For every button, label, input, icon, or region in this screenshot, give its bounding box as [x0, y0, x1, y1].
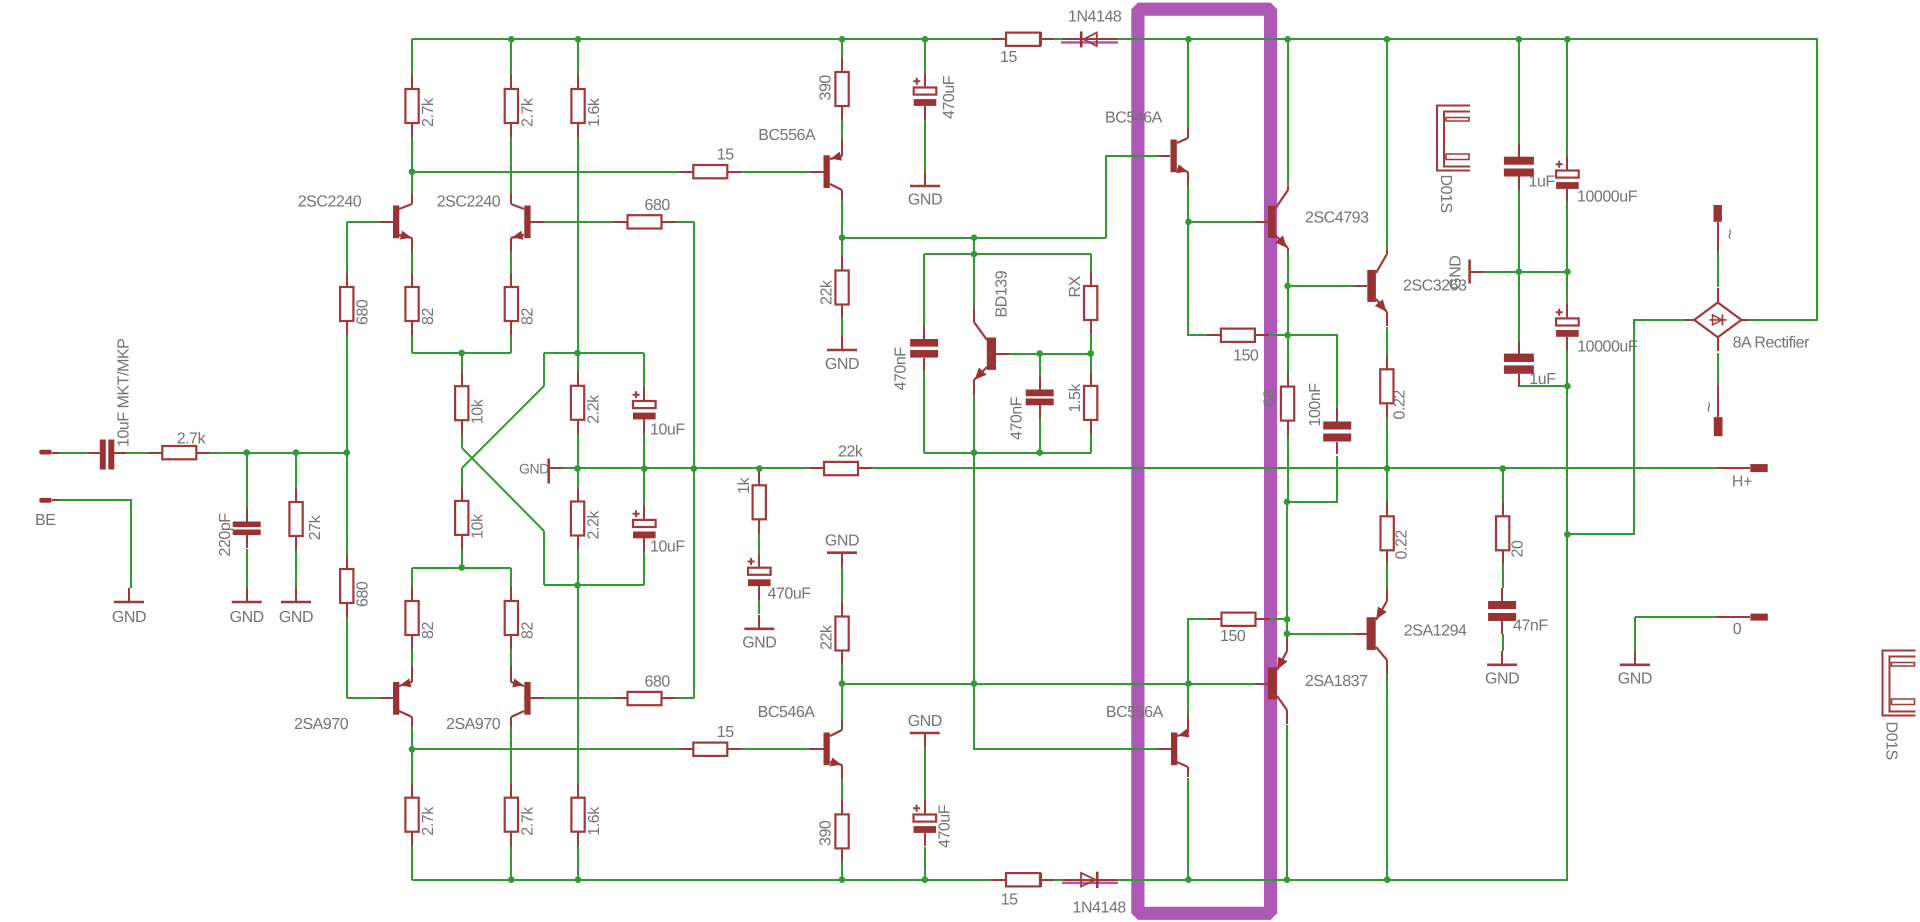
svg-text:RX: RX: [1067, 275, 1084, 297]
highlight underline bottom rail: [1062, 882, 1118, 885]
svg-text:22k: 22k: [819, 624, 836, 650]
wire BD139 emitter down: [973, 393, 975, 684]
ground 22k#4 GND: [827, 553, 857, 567]
resistor 680 #3: [614, 215, 676, 228]
capacitor 1uF #2: [1504, 341, 1534, 387]
ground 220pF GND: [232, 588, 262, 602]
junction V+ 2.7k#2: [508, 36, 515, 43]
svg-text:22k: 22k: [819, 279, 836, 305]
wire 22k#4 to GND: [841, 567, 843, 602]
wire 15#1 to BC556A base: [741, 171, 810, 173]
resistor 15 #2: [679, 743, 741, 756]
wire 2.7k#1 to Q1 collector: [411, 137, 413, 172]
ground BE GND: [114, 588, 144, 602]
svg-text:82: 82: [420, 622, 437, 639]
wire 2SC3263 base row: [1288, 285, 1354, 287]
junction 683 1188: [1185, 680, 1192, 687]
transistor BC546A #1: [1158, 128, 1188, 186]
wire 2.7k#4 to V- rail: [510, 846, 512, 880]
wire 220pF top: [246, 453, 248, 508]
svg-text:1uF: 1uF: [1529, 174, 1556, 191]
junction BD base RX: [1087, 350, 1094, 357]
ground 470uF#1 GND: [910, 172, 940, 186]
wire 680#4 right: [676, 697, 694, 699]
wire 150#2 right: [1270, 618, 1287, 620]
heatsink D01S #2: [1883, 651, 1916, 716]
svg-text:390: 390: [818, 75, 835, 101]
wire 974 drop: [973, 238, 975, 254]
wire 20 top: [1502, 468, 1504, 502]
wire Q2 emitter to 82#2: [510, 250, 512, 273]
svg-text:GND: GND: [519, 461, 549, 477]
svg-text:47nF: 47nF: [1513, 618, 1548, 635]
svg-text:GND: GND: [112, 609, 146, 626]
svg-text:8A Rectifier: 8A Rectifier: [1733, 334, 1811, 351]
transistor BD139: [974, 308, 1009, 395]
diode 1N4148 top: [1063, 31, 1117, 47]
wire 82 join top: [412, 352, 511, 354]
svg-text:680: 680: [355, 299, 372, 325]
junction BD139 box top: [971, 234, 978, 241]
wire output rail: [872, 467, 1718, 469]
junction V- 390#2: [839, 876, 846, 883]
capacitor 100nF: [1323, 408, 1351, 454]
svg-text:1uF: 1uF: [1529, 371, 1556, 388]
svg-text:D01S: D01S: [1883, 722, 1900, 760]
wire 470nF#1 bottom: [923, 358, 925, 453]
wire 585 row down to 1.6k#2: [577, 585, 579, 784]
wire 680#3 right: [676, 221, 694, 223]
svg-text:H+: H+: [1732, 473, 1752, 490]
wire 220pF to GND: [246, 549, 248, 588]
AC terminal pad bottom: [1714, 386, 1723, 436]
svg-text:GND: GND: [742, 634, 776, 651]
transistor 2SC4793: [1255, 186, 1288, 252]
capacitor 47nF: [1488, 588, 1516, 634]
svg-text:BC546A: BC546A: [758, 704, 816, 721]
resistor 10k #2: [455, 487, 468, 549]
svg-text:0.22: 0.22: [1394, 530, 1411, 560]
wire cross diagonal B: [462, 448, 544, 531]
wire Q4 base to 680#4: [543, 697, 614, 699]
wire GND row right: [1484, 271, 1567, 273]
bridge rectifier 8A: [1685, 288, 1749, 351]
svg-text:D01S: D01S: [1437, 175, 1454, 213]
wire 2.2k#1 to GND row: [577, 434, 579, 488]
wire 10k#1 bottom: [461, 420, 463, 448]
svg-text:10k: 10k: [470, 513, 487, 539]
svg-text:2SC2240: 2SC2240: [437, 194, 501, 211]
wire diag B down: [543, 531, 545, 585]
wire 470uF#1 to GND: [924, 120, 926, 172]
svg-text:10uF MKT/MKP: 10uF MKT/MKP: [116, 339, 133, 447]
wire 470uF#1 top: [924, 39, 926, 74]
wire 2.7k#2 top: [510, 39, 512, 75]
wire 683 row: [842, 683, 1255, 685]
junction 683 22k: [839, 680, 846, 687]
junction bias bottom 2.2k: [574, 582, 581, 589]
wire 82#1 to join: [411, 335, 413, 353]
resistor 15 #1: [679, 165, 741, 178]
wire BC556A#2 collector to V- rail: [1187, 778, 1189, 880]
wire BD139 collector up: [973, 254, 975, 308]
resistor 22k #1: [835, 256, 848, 318]
svg-text:82: 82: [420, 308, 437, 325]
ground 470uF#3 GND: [744, 615, 774, 629]
junction input 680: [343, 449, 350, 456]
junction input 27k: [293, 449, 300, 456]
BE terminal pad: [39, 498, 60, 503]
capacitor 10000uF #2: [1556, 304, 1579, 350]
wire GND to 470uF#4: [924, 747, 926, 800]
svg-text:15: 15: [1000, 49, 1017, 66]
svg-text:27k: 27k: [307, 514, 324, 540]
junction 3263 base: [1284, 283, 1291, 290]
svg-text:82: 82: [519, 622, 536, 639]
transistor Q2 2SC2240: [511, 194, 544, 252]
svg-text:0.22: 0.22: [1392, 390, 1409, 420]
svg-text:470nF: 470nF: [893, 347, 910, 391]
wire 237 row: [842, 237, 1106, 239]
junction rail 20: [1499, 465, 1506, 472]
wire BC556A#2 emitter up: [1187, 684, 1189, 724]
wire 27k top: [295, 453, 297, 488]
junction V+ BC546A: [1185, 36, 1192, 43]
transistor BC556A #1: [810, 139, 842, 200]
svg-text:680: 680: [645, 197, 671, 214]
transistor BC546A #2: [810, 720, 842, 779]
junction 683 BD139: [971, 680, 978, 687]
wire 1.6k#1 down to bias row: [577, 137, 579, 372]
wire 10000uF#1 top: [1566, 39, 1568, 156]
wire Q2 base to 680#3: [543, 221, 614, 223]
wire 0.22#1 to rail: [1386, 416, 1388, 468]
wire 237 row to BC546A base: [1106, 156, 1158, 238]
svg-text:390: 390: [818, 820, 835, 846]
wire box bottom: [924, 452, 1091, 454]
resistor 22k #4: [835, 602, 848, 664]
junction 22k#1 top: [839, 234, 846, 241]
wire 150#1 right: [1270, 334, 1288, 336]
resistor 0.22 #2: [1381, 502, 1394, 564]
wire 470uF#3 to GND: [758, 600, 760, 614]
wire input node: [210, 452, 347, 454]
wire Q1 base: [347, 221, 380, 223]
wire BC546A#1 emitter down: [1187, 185, 1189, 222]
svg-text:470uF: 470uF: [941, 75, 958, 119]
wire 470nF#2 top: [1039, 354, 1041, 376]
wire 2SA1294 collector to V- rail: [1386, 673, 1388, 880]
wire 10uF#2 top: [643, 468, 645, 506]
junction GND row 2.2k: [574, 465, 581, 472]
junction bias top 2.2k: [574, 350, 581, 357]
svg-text:2SC3263: 2SC3263: [1403, 278, 1467, 295]
resistor 2.7k #2: [505, 75, 518, 137]
wire BD139 base row: [1009, 353, 1091, 355]
wire 150#1 to 68: [1287, 335, 1289, 373]
wire 1k to 470uF#3: [758, 533, 760, 554]
wire 82#3 to Q3: [411, 649, 413, 668]
junction BD base 470nF: [1036, 350, 1043, 357]
junction Q3 collector: [409, 746, 416, 753]
svg-text:68: 68: [1262, 389, 1279, 406]
resistor 82 #3: [405, 587, 418, 649]
svg-text:15: 15: [717, 147, 734, 164]
AC terminal pad top: [1714, 205, 1722, 252]
wire bias row top right: [544, 352, 644, 354]
wire 694 column: [693, 222, 695, 698]
wire Q3 collector to base row: [411, 724, 413, 749]
svg-text:2SA1294: 2SA1294: [1404, 623, 1467, 640]
wire 10uF#2 bottom: [643, 550, 645, 585]
ground 27k GND: [281, 588, 311, 602]
svg-text:470uF: 470uF: [768, 586, 812, 603]
wire 3263 base node: [1287, 286, 1289, 335]
svg-text:150: 150: [1220, 628, 1246, 645]
wire 1k top: [758, 468, 760, 471]
svg-text:GND: GND: [908, 192, 942, 209]
junction V+ 2SC4793: [1284, 36, 1291, 43]
svg-text:2.2k: 2.2k: [586, 510, 603, 540]
resistor 68: [1281, 373, 1294, 435]
wire 1uF#2 top: [1518, 272, 1520, 341]
wire V+ rail right / to rectifier +: [1117, 39, 1817, 320]
junction V- 2SA1837: [1284, 876, 1291, 883]
wire Q1 collector node: [411, 172, 413, 196]
wire BC556A collector down: [841, 198, 843, 238]
resistor 82 #4: [505, 587, 518, 649]
ground right (rotated): [1470, 260, 1484, 284]
wire 15#2 to BC546A#2 base: [741, 748, 810, 750]
svg-text:GND: GND: [825, 533, 859, 550]
wire 68 to lower node: [1287, 434, 1289, 502]
wire rectifier minus link: [1567, 320, 1685, 534]
highlight underline top rail: [1061, 41, 1118, 44]
junction 150#1 node: [1284, 332, 1291, 339]
svg-text:1.5k: 1.5k: [1067, 383, 1084, 413]
wire RX top: [1090, 254, 1092, 272]
capacitor 10uF #1: [633, 387, 656, 433]
wire 390#1 to BC556A emitter: [841, 120, 843, 147]
wire 0.22#2 top: [1386, 468, 1388, 502]
svg-text:1N4148: 1N4148: [1073, 900, 1127, 917]
resistor 150 #2: [1208, 613, 1270, 626]
resistor 82 #1: [405, 273, 418, 335]
junction VAS emitter: [1185, 219, 1192, 226]
junction box top T: [971, 251, 978, 258]
svg-text:BE: BE: [35, 512, 55, 529]
capacitor 470uF #4: [913, 800, 936, 846]
wire 2SC4793 collector to rail: [1287, 39, 1289, 186]
resistor 2.7k input: [148, 446, 210, 459]
capacitor 470nF #1: [910, 326, 938, 371]
junction input 220pF: [243, 449, 250, 456]
ground 470uF#4 GND: [910, 733, 940, 747]
resistor 150 #1: [1207, 329, 1269, 342]
junction V+ 2SC3263: [1384, 36, 1391, 43]
wire 1.6k#2 to V- rail: [577, 846, 579, 880]
junction GND row 10uF: [641, 465, 648, 472]
svg-text:220pF: 220pF: [217, 513, 234, 557]
wire 2SC4793 base row: [1188, 221, 1255, 223]
junction box bottom 470nF: [1036, 449, 1043, 456]
wire 15#2 base row: [412, 748, 679, 750]
resistor 82 #2: [505, 273, 518, 335]
wire RX bottom: [1090, 334, 1092, 354]
wire 27k to GND: [295, 550, 297, 588]
svg-text:22k: 22k: [838, 443, 864, 460]
wire 150#2 left link: [1188, 619, 1208, 684]
wire 82#4 to Q4: [510, 649, 512, 668]
wire 470nF#2 bottom: [1039, 407, 1041, 453]
wire bias row bottom: [544, 584, 644, 586]
resistor 1.6k #2: [571, 784, 584, 846]
wire 1.5k top: [1090, 354, 1092, 372]
svg-text:2SA970: 2SA970: [446, 716, 501, 733]
wire 20 to 47nF: [1502, 564, 1504, 588]
pin tick bottom: [1040, 873, 1042, 887]
wire BC546A#1 collector to rail: [1187, 39, 1189, 132]
wire 680 column top: [346, 222, 348, 273]
wire box top: [924, 253, 1091, 255]
ground mid (rotated): [549, 459, 563, 484]
wire 82#3 top: [411, 568, 413, 587]
transistor Q4 2SA970: [511, 666, 544, 727]
wire 1.5k bottom: [1090, 434, 1092, 453]
svg-text:~: ~: [1698, 402, 1719, 413]
H+ terminal pad: [1750, 464, 1767, 472]
svg-text:470uF: 470uF: [937, 804, 954, 848]
wire 10000uF#2 bottom: [1566, 350, 1568, 534]
svg-text:BC546A: BC546A: [1105, 110, 1163, 127]
svg-text:BC556A: BC556A: [758, 127, 816, 144]
svg-text:10k: 10k: [470, 398, 487, 424]
junction Q1 collector: [409, 168, 416, 175]
wire 0 terminal lead: [1635, 616, 1716, 618]
resistor 10k #1: [455, 372, 468, 434]
wire 10uF#1 top: [643, 353, 645, 387]
capacitor 10uF MKT/MKP: [88, 440, 126, 470]
svg-text:20: 20: [1510, 540, 1527, 557]
resistor 0.22 #1: [1380, 355, 1393, 417]
resistor 1.6k #1: [571, 75, 584, 137]
svg-text:~: ~: [1719, 229, 1740, 240]
capacitor 10000uF #1: [1556, 156, 1579, 202]
svg-text:10uF: 10uF: [650, 422, 685, 439]
junction 1294 base node: [1284, 630, 1291, 637]
svg-text:82: 82: [519, 308, 536, 325]
junction GND right 10000uF: [1564, 268, 1571, 275]
svg-text:GND: GND: [1618, 670, 1652, 687]
transistor Q1 2SC2240: [380, 194, 412, 252]
wire 2.7k#1 top: [411, 39, 413, 75]
svg-text:2.7k: 2.7k: [519, 806, 536, 836]
wire Q3 base: [347, 697, 380, 699]
svg-text:150: 150: [1233, 348, 1259, 365]
resistor 27k: [289, 488, 302, 550]
junction V- 2.7k#4: [508, 876, 515, 883]
wire BC546A#2 emitter to 390#2: [841, 778, 843, 800]
transistor Q3 2SA970: [380, 666, 412, 727]
resistor 2.7k #1: [405, 75, 418, 137]
junction GND right 1uF: [1516, 268, 1523, 275]
wire 10k#2 bottom: [461, 535, 463, 568]
svg-text:0: 0: [1733, 621, 1742, 638]
wire 2.7k#2 to Q2 collector: [510, 137, 512, 196]
svg-text:10000uF: 10000uF: [1577, 189, 1638, 206]
svg-text:15: 15: [1001, 892, 1018, 909]
junction V- 2SA1294: [1384, 876, 1391, 883]
wire 2SA1294 base row: [1287, 633, 1354, 635]
junction V+ 1uF: [1516, 36, 1523, 43]
resistor 1.5k: [1084, 372, 1097, 434]
wire 10uF to 2.7k: [126, 452, 148, 454]
wire 22k#4 bottom: [841, 664, 843, 684]
capacitor 470nF #2: [1026, 376, 1054, 418]
ground 47nF GND: [1487, 651, 1517, 665]
svg-text:2.7k: 2.7k: [519, 97, 536, 127]
wire 2SC3263 emitter to 0.22#1: [1386, 327, 1388, 355]
svg-text:GND: GND: [825, 356, 859, 373]
wire BC546A#2 collector up: [841, 684, 843, 723]
wire V- rail right / to rectifier -: [1117, 534, 1567, 880]
junction rail 0.22: [1384, 465, 1391, 472]
wire 100nF top link: [1288, 335, 1337, 408]
wire Q1 emitter to 82#1: [411, 250, 413, 273]
junction 1uF#2 link: [1564, 383, 1571, 390]
svg-text:2SA1837: 2SA1837: [1305, 673, 1368, 690]
svg-text:GND: GND: [230, 609, 264, 626]
highlight box (purple marker): [1138, 9, 1271, 913]
wire diag A to 10k#2: [461, 468, 463, 487]
wire 1uF#1 bottom: [1518, 190, 1520, 272]
wire 0.22#2 to 2SA1294 emitter: [1386, 564, 1388, 589]
wire V+ rail: [412, 38, 1063, 40]
transistor 2SA1837: [1255, 637, 1287, 724]
svg-text:10uF: 10uF: [650, 539, 685, 556]
svg-text:BC556A: BC556A: [1106, 704, 1164, 721]
resistor 680 #4: [614, 692, 676, 705]
resistor 15 #3: [992, 33, 1054, 46]
wire 2.2k#2 to 585 row: [577, 550, 579, 585]
wire 1837 emitter up: [1286, 634, 1288, 642]
wire V- rail: [412, 879, 1063, 881]
wire 680#2 to Q3 base: [346, 617, 348, 698]
svg-text:BD139: BD139: [994, 270, 1011, 317]
wire 390#1 top: [841, 39, 843, 58]
wire rectifier AC bottom: [1717, 353, 1719, 386]
junction rectifier minus: [1564, 531, 1571, 538]
svg-text:2.7k: 2.7k: [420, 806, 437, 836]
resistor 20: [1496, 502, 1509, 564]
wire 1uF#2 bottom link: [1519, 385, 1567, 387]
transistor 2SA1294: [1354, 587, 1387, 674]
resistor 390 #1: [835, 58, 848, 120]
svg-text:15: 15: [717, 724, 734, 741]
ground 0 terminal GND: [1620, 651, 1650, 665]
wire 82#4 top: [510, 568, 512, 587]
capacitor 470uF #3: [748, 554, 771, 600]
wire 10k#1 top: [461, 353, 463, 372]
ground 22k GND: [827, 336, 857, 350]
svg-text:470nF: 470nF: [1009, 396, 1026, 440]
wire 470uF#4 to V- rail: [924, 847, 926, 880]
wire driver emitter column: [1286, 502, 1288, 634]
resistor 2.7k #3: [405, 784, 418, 846]
junction V+ 470uF: [922, 36, 929, 43]
capacitor 1uF #1: [1504, 144, 1534, 190]
svg-text:680: 680: [355, 581, 372, 607]
